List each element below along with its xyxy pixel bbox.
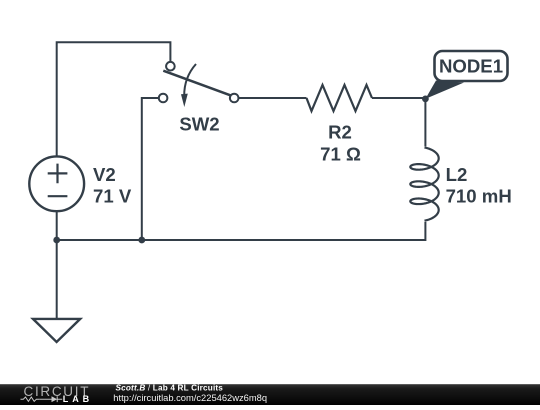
svg-text:71 V: 71 V [93,186,132,207]
svg-text:V2: V2 [93,164,116,185]
svg-text:NODE1: NODE1 [439,56,503,77]
svg-text:SW2: SW2 [179,114,219,135]
svg-text:710 mH: 710 mH [446,185,512,206]
svg-text:R2: R2 [328,121,352,142]
svg-text:L2: L2 [446,164,468,185]
svg-text:71 Ω: 71 Ω [320,143,361,164]
svg-text:http://circuitlab.com/c225462w: http://circuitlab.com/c225462wz6m8q [113,393,267,403]
svg-text:LAB: LAB [63,394,93,404]
svg-text:Scott.B / Lab 4 RL Circuits: Scott.B / Lab 4 RL Circuits [116,384,224,393]
